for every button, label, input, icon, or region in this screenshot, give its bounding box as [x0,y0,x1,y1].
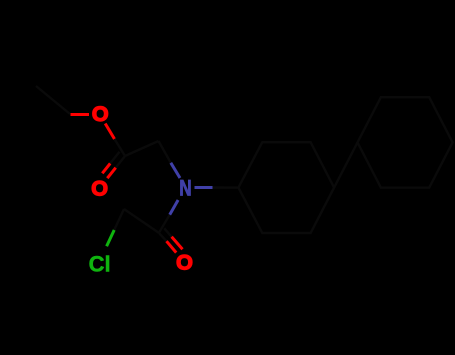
ester C=O main line O half [107,168,115,179]
amide C=O second line C half [164,228,171,237]
amide C=O second line O half [172,237,183,249]
bond N-Camide N half [170,200,178,215]
bond CH3-CH2 ethyl [36,86,70,114]
svg-text:O: O [92,102,109,126]
bond CH2Cl-Cl C half [114,209,124,230]
bond N-ring1 N half [195,186,213,189]
bond Cest-Calpha [125,141,159,156]
bond N-ring1 C half [213,186,239,189]
svg-text:Cl: Cl [89,251,111,276]
ring2 [358,97,453,188]
bond CH2Cl-Cl Cl half [107,230,115,246]
bond ring1-ring2 [334,142,357,187]
bond O-C ester O half [105,124,114,140]
svg-text:N: N [179,176,191,201]
amide C=O main line C half [159,233,167,241]
svg-text:O: O [176,250,193,274]
bond N-Camide C half [159,215,170,233]
ester C=O second line C half [110,152,119,164]
ring1 cyclohexane [238,142,334,233]
ester C=O main line C half [116,156,125,168]
bond Calpha-N N half [171,163,180,178]
amide C=O main line O half [167,241,177,252]
bond CH2-O ester (O colored) [71,113,90,116]
bond Calpha-N C half [159,141,171,163]
ester C=O second line O half [102,163,110,173]
svg-text:O: O [91,176,108,200]
bond Camide-CH2Cl [124,209,159,233]
bond O-C ester C half [115,139,126,156]
